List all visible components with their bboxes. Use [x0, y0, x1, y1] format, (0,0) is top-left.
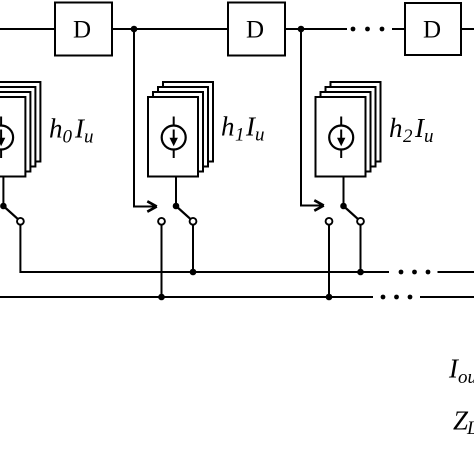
label I_out [448, 354, 474, 389]
svg-text:2: 2 [403, 126, 413, 147]
svg-text:D: D [73, 17, 91, 44]
svg-text:0: 0 [63, 127, 73, 148]
value label h1 Iu [221, 112, 265, 146]
wire: h0 source output to switch S0 [2, 177, 4, 207]
wire: control line from node after D1 to switch S1 (with arrowhead) [134, 29, 157, 212]
wire: S2 right contact down to output bus [360, 225, 362, 272]
switch S0 (pivot and arm) [0, 203, 24, 225]
wire: D3 output to right edge [461, 28, 474, 30]
wire: D1 output to D2 input [112, 28, 228, 30]
ellipsis on delay chain [351, 27, 385, 32]
delay block D1 [55, 3, 112, 56]
value label h0 Iu [49, 114, 94, 148]
ellipsis on return bus [381, 295, 413, 300]
svg-text:h: h [221, 112, 235, 142]
wire: S1 right contact down to output bus [192, 225, 194, 272]
ellipsis on output bus [399, 270, 431, 275]
wire: D2 output segment [285, 28, 347, 30]
wire: S1 left contact down to return bus [161, 225, 163, 297]
wire: into D3 [392, 28, 405, 30]
junction on return bus at S1 [158, 294, 165, 301]
current source stack h2*Iu [316, 82, 381, 177]
svg-text:u: u [424, 126, 434, 147]
svg-text:D: D [246, 17, 264, 44]
svg-text:h: h [389, 113, 403, 143]
wire: S0 right contact down to output bus (corner) [20, 225, 40, 272]
wire: S2 left contact down to return bus [328, 225, 330, 297]
label Z_L [453, 406, 474, 440]
output bus (I_out) left of ellipsis [20, 271, 389, 273]
delay block D3 [405, 3, 461, 55]
svg-text:u: u [84, 127, 94, 148]
switch S1 (pivot, arm, contacts) [158, 203, 196, 225]
delay block D2 [228, 3, 285, 56]
current source stack h0*Iu (partially cropped at left edge) [0, 82, 40, 177]
wire: input line into D1 [0, 28, 55, 30]
svg-text:u: u [255, 125, 265, 146]
switch S2 (pivot, arm, contacts) [326, 203, 364, 225]
junction node after D1 [131, 26, 138, 33]
junction on output bus at S2 [357, 269, 364, 276]
return bus segment to right edge [420, 296, 474, 298]
junction on output bus at S1 [190, 269, 197, 276]
svg-text:L: L [466, 418, 474, 439]
return bus from left edge [0, 296, 373, 298]
output bus segment to right edge [438, 271, 474, 273]
svg-text:out: out [458, 367, 474, 388]
wire: h2 source output to switch S2 [343, 177, 345, 207]
svg-text:h: h [49, 114, 63, 144]
current source stack h1*Iu [148, 82, 213, 177]
svg-text:D: D [423, 17, 441, 44]
junction node after D2 [298, 26, 305, 33]
junction on return bus at S2 [326, 294, 333, 301]
wire: control line from node after D2 to switch S2 (with arrowhead) [301, 29, 324, 211]
value label h2 Iu [389, 113, 434, 147]
wire: h1 source output to switch S1 [175, 177, 177, 207]
svg-text:1: 1 [235, 125, 245, 146]
